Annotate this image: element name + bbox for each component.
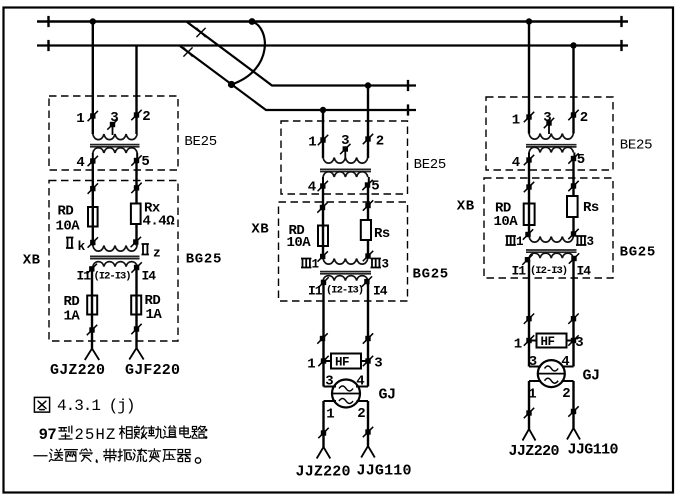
filter HF right [529, 334, 574, 350]
wire right receiver 1 down [528, 260, 530, 367]
wire stub to relay middle right [356, 386, 368, 388]
svg-text:4: 4 [308, 180, 316, 196]
label GJZ220 [50, 362, 105, 379]
cable fork JJG110 [361, 446, 375, 458]
svg-text:2: 2 [142, 109, 150, 125]
label XB left [23, 253, 41, 269]
terminal I4 left [131, 262, 156, 283]
label BG25 middle [413, 267, 449, 283]
transformer BE25 left secondary winding [93, 148, 137, 161]
relay GJ right [538, 360, 565, 387]
svg-text:HF: HF [335, 356, 349, 370]
wire right feed 2 from rail2 [572, 46, 574, 134]
svg-text:25HZ: 25HZ [75, 426, 117, 444]
terminal slash middle out 1 [318, 428, 328, 438]
label GJ terminal 1 right [528, 387, 536, 403]
svg-text:I4: I4 [142, 269, 157, 284]
label RD 1A left a [64, 294, 81, 325]
svg-text:I4: I4 [373, 284, 388, 299]
wire right feed 1 from rail1 [528, 22, 530, 134]
svg-text:RD: RD [58, 204, 74, 220]
tick on upper stub [407, 80, 409, 91]
svg-text:2: 2 [376, 134, 384, 150]
svg-text:JJZ220: JJZ220 [296, 464, 351, 481]
insulated joint tick left rail 1 [47, 16, 49, 27]
fuse RD 1A left b [131, 296, 141, 315]
wire middle branch 1 down [322, 186, 324, 259]
label I2-I3 middle [326, 285, 363, 297]
transformer BE25 right primary winding [529, 134, 573, 140]
label GJ right [583, 368, 600, 385]
transformer BE25 right secondary winding [529, 147, 574, 160]
svg-text:2: 2 [580, 110, 588, 126]
transformer BE25 left primary winding [93, 134, 137, 140]
svg-text:I1: I1 [512, 264, 527, 279]
choke jumper arc [232, 22, 265, 85]
terminal IIz left [131, 237, 161, 261]
wire middle feed 1 from lower stub [322, 110, 324, 158]
svg-text:JJG110: JJG110 [357, 463, 412, 480]
wire left output 1 [91, 269, 93, 349]
svg-text:10A: 10A [287, 235, 312, 251]
svg-text:I1: I1 [77, 269, 92, 284]
transformer BE25 left box [49, 96, 178, 170]
terminal I1 left [77, 264, 98, 284]
svg-text:3: 3 [543, 110, 551, 126]
fuse RD 10A middle [318, 226, 328, 247]
label GJ terminal 4 right [561, 354, 569, 370]
terminal 2 middle BE25 [363, 134, 384, 150]
svg-text:1A: 1A [146, 307, 163, 323]
annotation line 1: 97-type 25HZ phase-sensitive track circuit [39, 426, 208, 444]
terminal slash middle branch 2 [363, 200, 373, 210]
terminal slash left output 2 [131, 324, 141, 334]
insulated joint tick right rail 2 [620, 40, 622, 51]
transformer BE25 right box [486, 97, 613, 170]
svg-text:(I2-I3): (I2-I3) [94, 271, 131, 283]
svg-text:3: 3 [382, 258, 390, 272]
wire diagonal 1 to upper stub [187, 22, 416, 86]
terminal III1 right [506, 229, 534, 249]
transformer BE25 left core [90, 145, 140, 147]
label Rx left [143, 201, 176, 230]
terminal 5 left BE25 [131, 154, 150, 170]
label GJ terminal 2 right [562, 386, 570, 402]
svg-text:1: 1 [76, 111, 84, 127]
track box BG25 right (dashed) [484, 178, 613, 278]
terminal 1 HF middle [307, 356, 328, 373]
transformer BE25 right core [526, 145, 577, 147]
wire right receiver 2 down [572, 259, 574, 367]
wire diagonal 2 to lower stub [180, 46, 416, 110]
svg-text:1: 1 [514, 337, 522, 353]
wire right out 1 [529, 381, 541, 429]
svg-text:(I2-I3): (I2-I3) [530, 265, 567, 277]
svg-text:GJF220: GJF220 [125, 362, 180, 379]
resistor Rs right [567, 196, 578, 217]
cable fork GJZ220 [85, 349, 99, 361]
wire left branch 1 down [92, 161, 94, 246]
insulated joint tick left rail 2 [47, 40, 49, 51]
transformer BG25 right core [526, 250, 577, 252]
svg-text:BE25: BE25 [620, 138, 652, 154]
resistor Rx 4.4ohm left [131, 204, 141, 225]
cable fork JJZ220 [317, 447, 331, 459]
label I2-I3 right [530, 265, 567, 277]
terminal 4 middle BE25 [308, 180, 328, 196]
transformer BE25 middle core [320, 169, 371, 171]
label RD 10A middle [287, 223, 312, 251]
label RD 10A left [56, 204, 81, 235]
resistor Rs middle [361, 220, 371, 240]
transformer BG25 middle primary winding [323, 259, 368, 265]
label I2-I3 left [94, 271, 131, 283]
transformer BG25 middle secondary winding [323, 276, 368, 281]
wire right out 2 [562, 381, 574, 428]
label JJG110 middle [357, 463, 412, 480]
terminal I4 right [569, 253, 592, 278]
svg-text:k: k [78, 239, 86, 254]
svg-text:(I2-I3): (I2-I3) [326, 285, 363, 297]
svg-text:1: 1 [326, 407, 334, 423]
label Rs middle [374, 226, 390, 242]
label Rs right [583, 200, 599, 216]
wire stub to relay right left [529, 366, 541, 368]
wire middle out 2 [357, 401, 369, 446]
svg-text:BG25: BG25 [413, 267, 449, 283]
terminal I4 middle [362, 276, 388, 298]
wire stub to relay right right [562, 366, 574, 368]
transformer BG25 middle core [320, 272, 371, 274]
svg-text:BG25: BG25 [620, 245, 656, 261]
transformer BG25 right secondary winding [529, 253, 573, 258]
svg-text:5: 5 [371, 179, 379, 195]
terminal slash right receiver 2 [568, 314, 578, 324]
svg-text:10A: 10A [56, 219, 81, 235]
transformer BG25 right primary winding [529, 237, 573, 243]
svg-text:2: 2 [562, 386, 570, 402]
terminal 1 HF right [514, 335, 534, 352]
label GJ terminal 2 middle [357, 406, 365, 422]
fuse RD 10A right [524, 204, 535, 226]
svg-text:Rs: Rs [374, 226, 390, 242]
terminal slash right out 1 [524, 408, 534, 418]
annotation line 2: one-send two-receive with choke transformer [34, 449, 201, 464]
svg-text:XB: XB [23, 253, 41, 269]
terminal 3 HF middle [363, 356, 383, 372]
label BE25 middle [414, 157, 446, 173]
terminal I1 right [512, 255, 533, 279]
svg-text:1: 1 [516, 235, 524, 249]
terminal 3 left BE25 [107, 110, 118, 135]
transformer BE25 middle box [281, 121, 408, 194]
svg-text:3: 3 [341, 133, 349, 149]
insulation x-mark on diagonal 2 [183, 47, 192, 56]
transformer BE25 middle primary winding [323, 158, 368, 164]
wire left branch 2 down [135, 161, 137, 246]
transformer BG25 left primary winding [93, 246, 137, 252]
svg-text:HF: HF [541, 335, 555, 349]
label JJZ220 middle [296, 464, 351, 481]
svg-text:2: 2 [357, 406, 365, 422]
wire right branch 2 down [572, 159, 574, 237]
cable fork GJF220 [129, 348, 143, 360]
label XB middle [251, 222, 269, 238]
svg-text:BE25: BE25 [184, 134, 216, 150]
label BG25 right [620, 245, 656, 261]
wire rail 2 (bottom track rail) [37, 44, 628, 46]
svg-text:4.4Ω: 4.4Ω [143, 214, 176, 230]
terminal 3 HF right [568, 335, 583, 351]
svg-text:z: z [153, 246, 161, 261]
wire rail 1 (top track rail) [37, 20, 628, 23]
svg-text:3: 3 [529, 354, 537, 370]
terminal slash middle receiver 1 [317, 333, 327, 343]
node right feed 1 on rail1 [526, 18, 532, 24]
terminal III3 right [568, 229, 594, 249]
node jumper bottom [228, 81, 235, 88]
terminal 1 right BE25 [512, 112, 534, 129]
node left feed 1 on rail 1 [90, 18, 96, 24]
svg-text:I4: I4 [577, 264, 592, 279]
cable fork JJZ220 right [523, 429, 536, 441]
wire middle receiver 2 down [367, 282, 369, 387]
terminal 4 right BE25 [512, 155, 534, 171]
terminal 1 middle BE25 [308, 135, 328, 151]
fuse RD 10A left [88, 207, 98, 227]
node jumper top [249, 18, 256, 25]
svg-text:1A: 1A [64, 309, 81, 325]
svg-text:1: 1 [512, 113, 520, 129]
terminal IIk left [66, 237, 98, 254]
wire middle branch 2 down [367, 185, 369, 259]
svg-text:JJG110: JJG110 [568, 442, 619, 459]
label RD 1A left b [145, 293, 163, 323]
terminal slash left branch 2 entering BG25 [131, 183, 141, 193]
terminal slash left branch 1 entering BG25 [88, 183, 98, 193]
svg-text:3: 3 [374, 356, 382, 372]
label BE25 right [620, 138, 652, 154]
terminal 2 right BE25 [568, 110, 588, 126]
node middle feed 2 [365, 82, 371, 88]
svg-text:4: 4 [76, 155, 84, 171]
terminal 3 middle BE25 [340, 133, 350, 159]
terminal 2 left BE25 [131, 109, 150, 125]
svg-text:GJ: GJ [583, 368, 600, 385]
track box BG25 middle (dashed) [279, 202, 408, 301]
wire left feed 2 from rail2 [135, 46, 137, 135]
terminal III3 middle [363, 251, 389, 272]
label BE25 left [184, 134, 216, 150]
wire left output 2 [135, 268, 137, 349]
node right feed 2 on rail2 [570, 42, 576, 48]
label BG25 left [186, 251, 222, 267]
svg-text:JJZ220: JJZ220 [509, 443, 560, 460]
svg-text:1: 1 [312, 258, 320, 272]
svg-text:4: 4 [512, 155, 520, 171]
insulation x-mark on diagonal 1 [196, 28, 205, 37]
terminal 5 middle BE25 [362, 179, 379, 195]
filter HF middle [324, 354, 369, 370]
wire middle out 1 [324, 401, 337, 447]
svg-text:1: 1 [308, 135, 316, 151]
wire stub to relay middle left [324, 386, 337, 388]
fuse RD 1A left a [87, 296, 97, 315]
track box BG25 left (dashed) [49, 181, 178, 342]
svg-text:BE25: BE25 [414, 157, 446, 173]
terminal 5 right BE25 [568, 152, 585, 168]
label GJ terminal 1 middle [326, 407, 334, 423]
svg-text:97: 97 [39, 426, 57, 444]
svg-text:GJZ220: GJZ220 [50, 362, 105, 379]
terminal III1 middle [301, 251, 328, 271]
terminal slash right out 2 [568, 406, 578, 416]
svg-text:GJ: GJ [379, 387, 396, 404]
label XB right [457, 198, 475, 214]
terminal 4 left BE25 [76, 155, 98, 171]
transformer BG25 left secondary winding [93, 262, 137, 267]
node middle feed 1 [320, 107, 326, 113]
label GJ terminal 4 middle [356, 374, 364, 390]
terminal 1 left BE25 [76, 111, 98, 127]
wire middle feed 2 from upper stub [367, 86, 369, 159]
terminal slash middle branch 1 [317, 202, 327, 212]
label GJ terminal 3 right [529, 354, 537, 370]
wire middle receiver 1 down [322, 282, 324, 386]
label GJF220 [125, 362, 180, 379]
svg-text:Rs: Rs [583, 200, 599, 216]
svg-text:3: 3 [110, 110, 118, 126]
cable fork JJG110 right [567, 428, 580, 440]
svg-text:XB: XB [251, 222, 269, 238]
caption figure 4.3.1 (j) [34, 397, 134, 415]
svg-text:10A: 10A [494, 214, 519, 230]
terminal slash middle receiver 2 [363, 333, 373, 343]
terminal I1 middle [308, 277, 329, 298]
terminal slash right branch 1 [524, 182, 534, 192]
svg-text:XB: XB [457, 198, 475, 214]
svg-text:1: 1 [307, 357, 315, 373]
label JJZ220 right [509, 443, 560, 460]
label GJ terminal 3 middle [325, 374, 333, 390]
svg-text:5: 5 [577, 152, 585, 168]
svg-text:5: 5 [141, 154, 149, 170]
svg-text:3: 3 [575, 335, 583, 351]
terminal slash middle out 2 [363, 427, 373, 437]
terminal slash right receiver 1 [524, 314, 534, 324]
svg-text:3: 3 [587, 235, 595, 249]
transformer BG25 left core [90, 256, 140, 258]
insulated joint tick right rail 1 [620, 16, 622, 27]
label RD 10A right [494, 201, 519, 231]
label JJG110 right [568, 442, 619, 459]
tick on lower stub [407, 104, 409, 115]
terminal slash left output 1 [87, 325, 97, 335]
terminal slash right branch 2 [568, 181, 578, 191]
terminal 3 right BE25 [543, 110, 554, 134]
transformer BE25 middle secondary winding [323, 172, 369, 186]
svg-text:I1: I1 [308, 284, 323, 299]
wire left feed 1 from rail1 [92, 22, 94, 135]
svg-text:4.3.1 (j): 4.3.1 (j) [57, 397, 134, 415]
label GJ middle [379, 387, 396, 404]
wire right branch 1 down [528, 160, 530, 237]
svg-text:BG25: BG25 [186, 251, 222, 267]
relay GJ middle [332, 380, 360, 408]
